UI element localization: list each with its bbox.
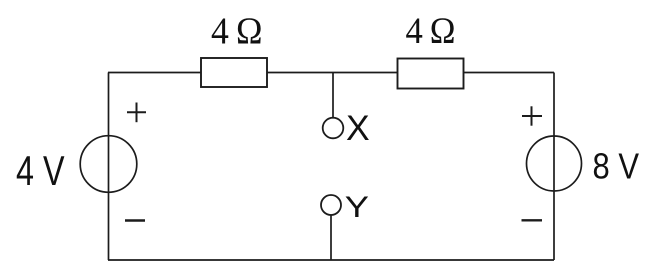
minus sign of V1 — [125, 219, 145, 221]
wire stub from terminal Y — [330, 215, 332, 260]
terminal X circle — [323, 118, 344, 139]
resistor R2 body — [398, 59, 464, 89]
voltage source V2 circle — [527, 136, 582, 191]
wire top left segment — [108, 72, 201, 74]
svg-text:Y: Y — [345, 191, 369, 224]
plus sign of V1 — [127, 103, 146, 123]
svg-text:4 V: 4 V — [16, 147, 65, 194]
svg-text:4 Ω: 4 Ω — [406, 11, 456, 52]
svg-text:4 Ω: 4 Ω — [211, 11, 263, 53]
wire top middle segment — [267, 72, 397, 74]
minus sign of V2 — [522, 219, 543, 221]
terminal Y circle — [321, 195, 341, 215]
wire bottom — [108, 259, 554, 261]
svg-text:8 V: 8 V — [593, 146, 640, 187]
wire left vertical — [108, 73, 110, 261]
voltage source V1 circle — [80, 136, 137, 193]
wire stub to terminal X — [332, 73, 334, 118]
plus sign of V2 — [522, 106, 542, 125]
wire right vertical — [553, 73, 555, 261]
wire top right segment — [464, 72, 554, 74]
svg-text:X: X — [346, 108, 370, 148]
resistor R1 body — [201, 58, 267, 87]
